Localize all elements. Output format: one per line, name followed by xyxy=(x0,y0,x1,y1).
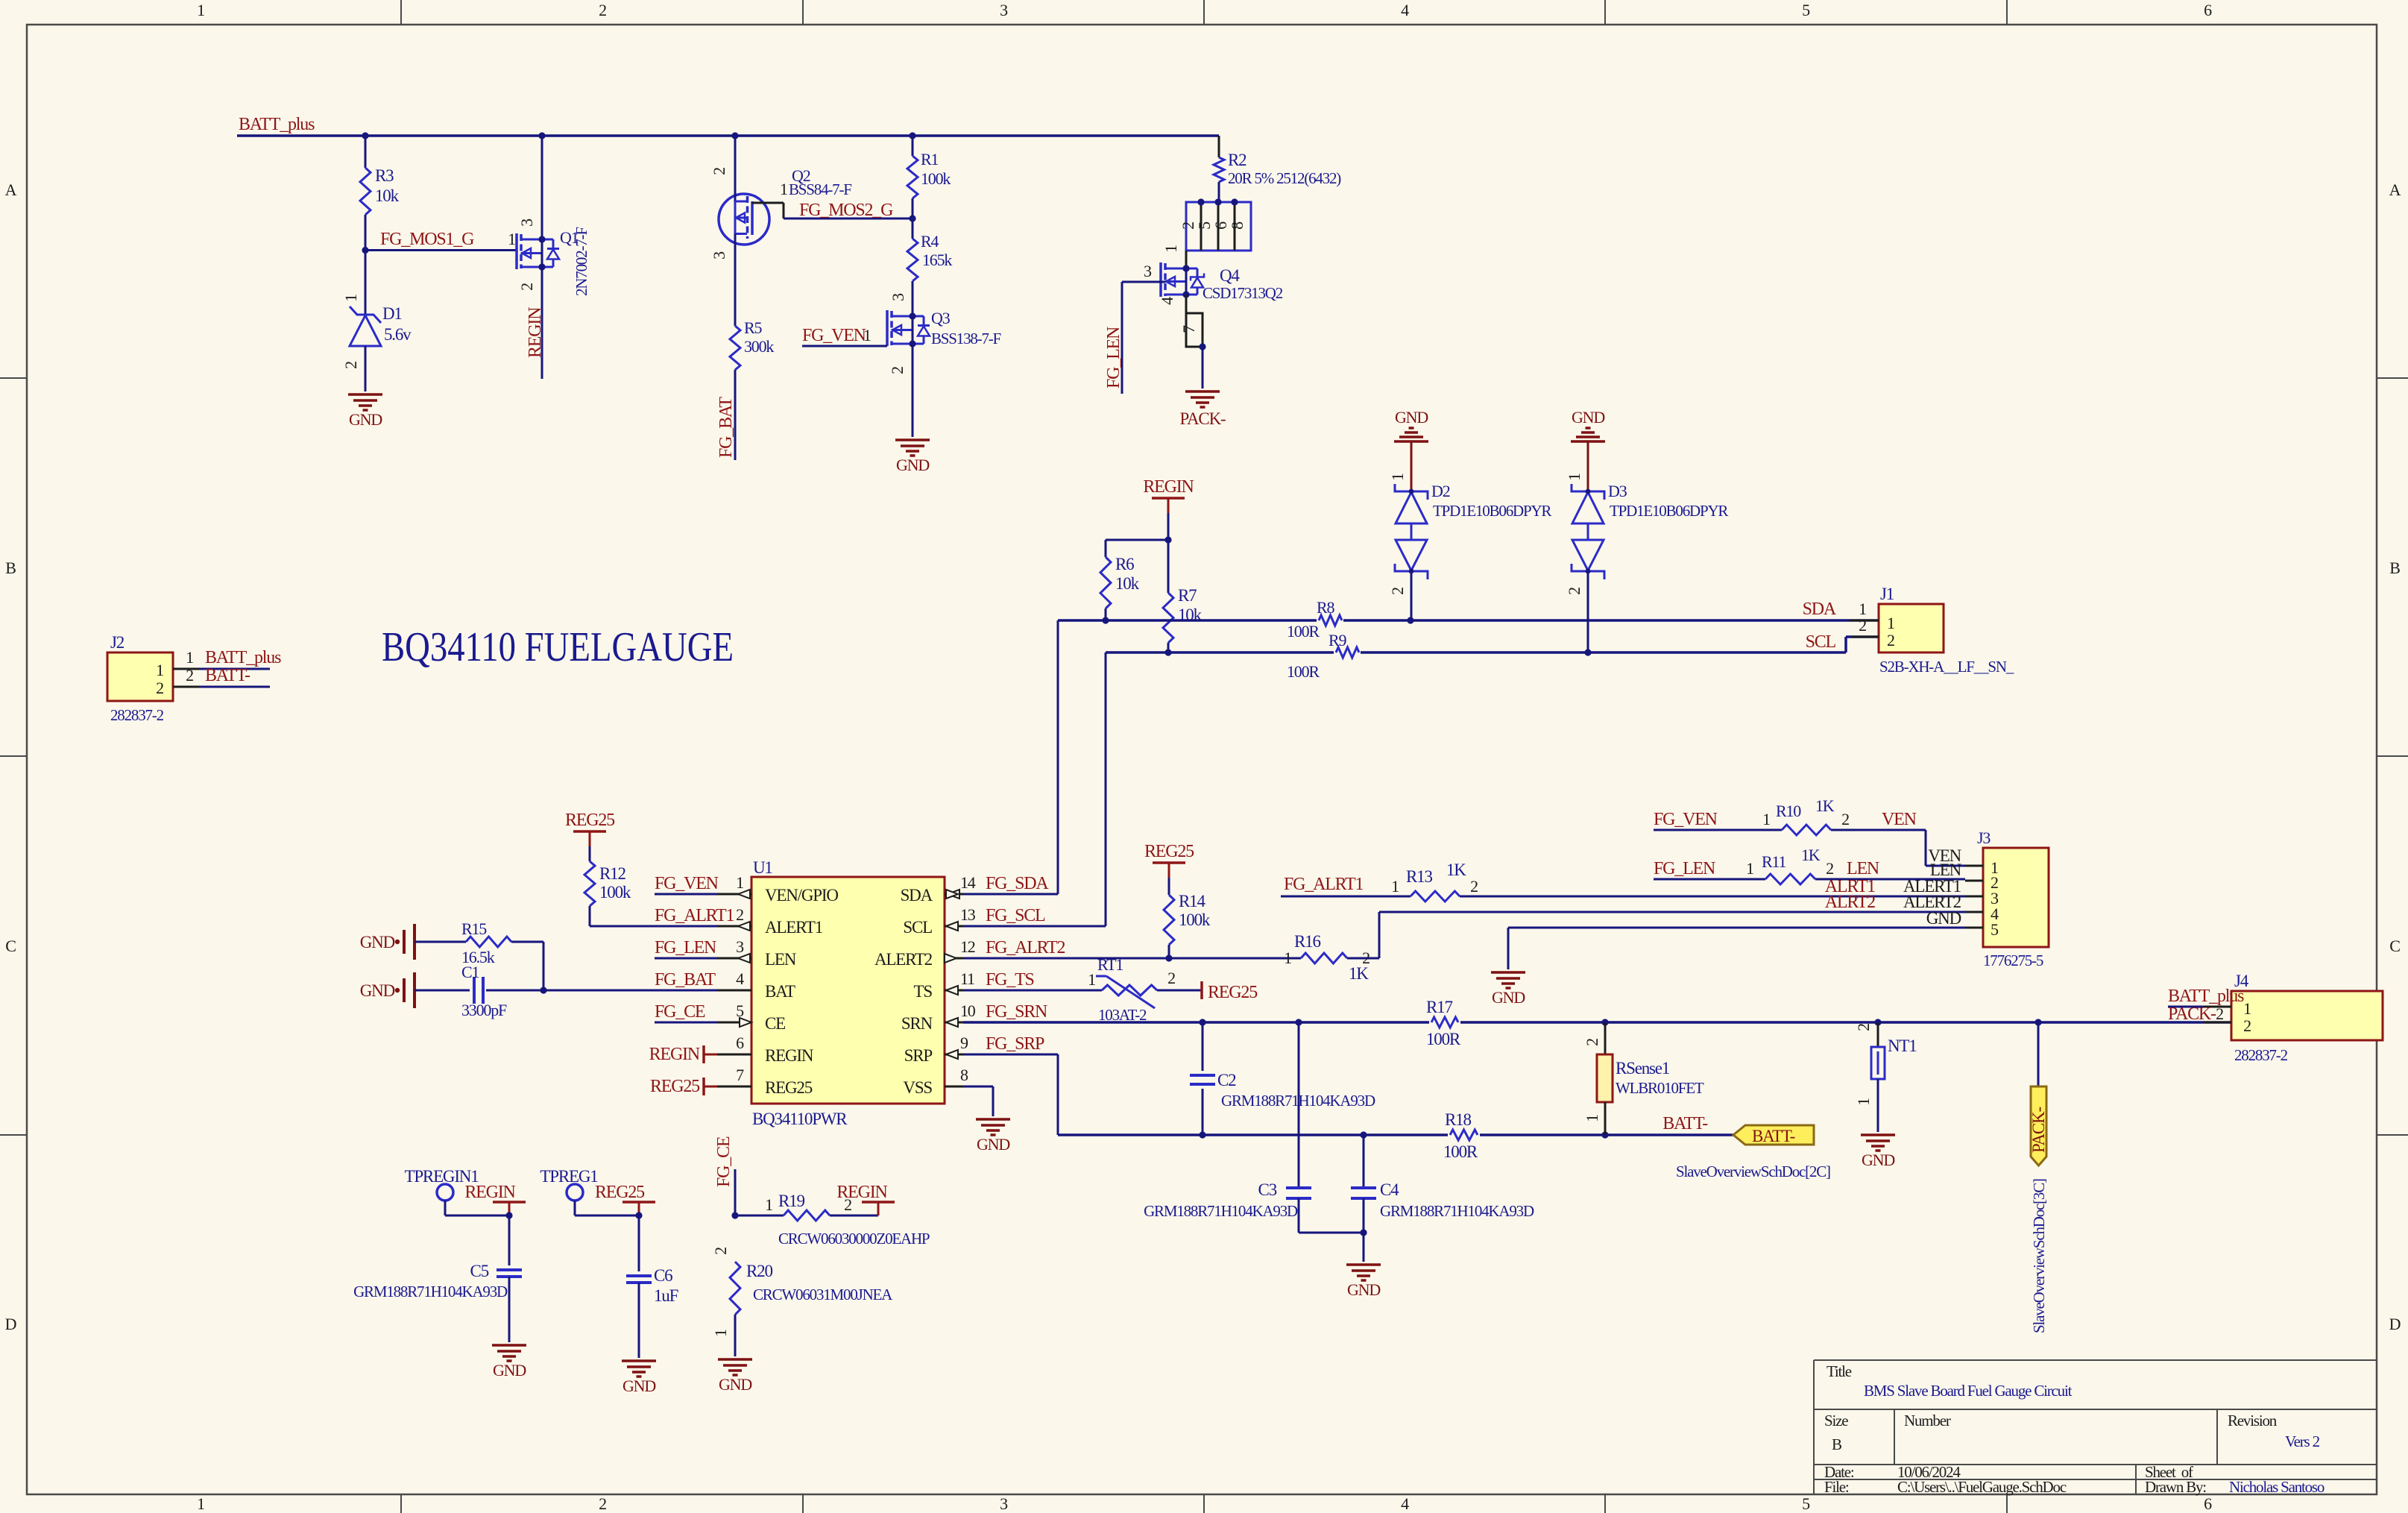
svg-text:1: 1 xyxy=(197,1494,204,1513)
svg-text:FG_CE: FG_CE xyxy=(655,1002,705,1022)
capacitor C3 GRM188R71H104KA93D xyxy=(1144,1022,1364,1233)
svg-text:10: 10 xyxy=(960,1001,976,1020)
svg-text:6: 6 xyxy=(2204,1494,2212,1513)
svg-text:7: 7 xyxy=(736,1066,744,1084)
svg-text:2N7002-7-F: 2N7002-7-F xyxy=(573,227,590,296)
svg-text:ALERT1: ALERT1 xyxy=(765,918,823,937)
svg-text:VSS: VSS xyxy=(903,1078,932,1097)
svg-text:3: 3 xyxy=(1144,262,1152,280)
wire net FG_CE to U1 pin5 xyxy=(655,1002,717,1022)
svg-text:LEN: LEN xyxy=(765,950,797,969)
svg-text:100R: 100R xyxy=(1287,622,1320,641)
svg-text:5: 5 xyxy=(1802,1,1810,19)
wire U1 pin8 VSS to ground xyxy=(963,1086,993,1116)
svg-text:ALERT2: ALERT2 xyxy=(874,950,933,969)
svg-text:1: 1 xyxy=(1388,474,1407,481)
svg-text:REG25: REG25 xyxy=(595,1183,645,1202)
transistor Q3 BSS138-7-F xyxy=(887,309,1001,374)
svg-text:Nicholas Santoso: Nicholas Santoso xyxy=(2229,1478,2325,1496)
svg-text:6: 6 xyxy=(736,1034,744,1052)
svg-text:1: 1 xyxy=(1391,877,1399,896)
svg-text:R8: R8 xyxy=(1317,598,1334,617)
ground symbol at U1 VSS xyxy=(976,1119,1010,1154)
svg-text:GND: GND xyxy=(1395,408,1428,427)
svg-text:R1: R1 xyxy=(921,150,938,169)
svg-text:GND: GND xyxy=(1862,1151,1894,1169)
net tie NT1 xyxy=(1854,1022,1917,1132)
svg-text:2: 2 xyxy=(1854,1024,1873,1031)
svg-text:R4: R4 xyxy=(921,232,939,251)
svg-text:300k: 300k xyxy=(744,337,774,356)
svg-text:2: 2 xyxy=(710,168,728,175)
resistor R19 CRCW06030000Z0EAHP xyxy=(735,1192,930,1248)
svg-text:Q3: Q3 xyxy=(931,309,951,327)
ground symbol below C5 xyxy=(492,1345,526,1380)
resistor R3 xyxy=(360,136,400,251)
svg-text:FG_VEN: FG_VEN xyxy=(1654,810,1718,829)
svg-text:REG25: REG25 xyxy=(765,1078,813,1097)
wire net FG_VEN to U1 pin1 xyxy=(655,874,719,894)
svg-text:R20: R20 xyxy=(746,1262,772,1280)
svg-text:2: 2 xyxy=(1565,588,1583,595)
svg-text:CRCW06030000Z0EAHP: CRCW06030000Z0EAHP xyxy=(778,1230,930,1248)
svg-text:282837-2: 282837-2 xyxy=(110,706,164,724)
svg-text:J2: J2 xyxy=(110,633,125,652)
wire net FG_LEN to U1 pin3 xyxy=(655,938,717,958)
svg-text:1776275-5: 1776275-5 xyxy=(1983,951,2043,969)
svg-text:GND: GND xyxy=(1926,909,1961,928)
wire FG_SDA underline xyxy=(963,893,1058,896)
wire net FG_TS to RT1 xyxy=(963,990,1102,992)
svg-text:100k: 100k xyxy=(921,169,951,188)
svg-text:2: 2 xyxy=(156,679,163,697)
svg-text:1: 1 xyxy=(1854,1098,1873,1106)
svg-text:VEN: VEN xyxy=(1882,810,1917,829)
svg-text:FG_LEN: FG_LEN xyxy=(655,938,716,957)
ground symbol below Q3 xyxy=(895,440,930,474)
svg-text:Vers 2: Vers 2 xyxy=(2285,1432,2320,1450)
svg-text:12: 12 xyxy=(960,937,975,956)
svg-text:1: 1 xyxy=(765,1195,772,1214)
svg-text:3: 3 xyxy=(736,937,744,956)
svg-text:1K: 1K xyxy=(1446,861,1466,879)
svg-text:1: 1 xyxy=(780,180,787,198)
svg-text:3: 3 xyxy=(517,218,536,227)
svg-text:VEN/GPIO: VEN/GPIO xyxy=(765,886,838,905)
svg-text:2: 2 xyxy=(599,1494,606,1513)
svg-text:TPREG1: TPREG1 xyxy=(540,1167,598,1186)
svg-text:2: 2 xyxy=(888,367,907,374)
svg-text:FG_VEN: FG_VEN xyxy=(655,874,719,893)
svg-text:BATT-: BATT- xyxy=(1752,1127,1795,1145)
svg-text:R19: R19 xyxy=(778,1192,804,1210)
resistor R17 100R xyxy=(1426,998,1461,1048)
svg-text:C3: C3 xyxy=(1258,1180,1277,1199)
svg-text:GND: GND xyxy=(1572,408,1604,427)
svg-text:1K: 1K xyxy=(1815,796,1835,815)
wire net FG_ALRT1 to J3 and resistor R13 1K xyxy=(1281,861,1965,902)
ground symbol below C6 xyxy=(622,1361,656,1395)
svg-text:6: 6 xyxy=(2204,1,2212,19)
svg-text:CSD17313Q2: CSD17313Q2 xyxy=(1203,284,1283,302)
power port REGIN above C5 xyxy=(464,1183,526,1219)
svg-text:D3: D3 xyxy=(1608,482,1627,500)
svg-text:2: 2 xyxy=(2216,1004,2223,1023)
svg-text:NT1: NT1 xyxy=(1888,1037,1917,1055)
svg-text:2: 2 xyxy=(599,1,606,19)
resistor R10 1K and net VEN xyxy=(1654,796,1965,866)
svg-text:TPD1E10B06DPYR: TPD1E10B06DPYR xyxy=(1433,502,1551,520)
svg-text:1: 1 xyxy=(186,648,193,667)
transistor Q4 CSD17313Q2 xyxy=(1144,251,1283,305)
svg-text:5: 5 xyxy=(1802,1494,1810,1513)
svg-text:1: 1 xyxy=(197,1,204,19)
svg-text:GND: GND xyxy=(719,1375,751,1394)
thermistor RT1 103AT-2 xyxy=(1088,955,1175,1024)
transistor Q1 2N7002-7-F xyxy=(517,136,590,296)
svg-text:1: 1 xyxy=(1746,859,1753,878)
connector J4 282837-2 xyxy=(2168,972,2383,1064)
svg-text:10k: 10k xyxy=(375,186,400,205)
power port REG25 above R14 xyxy=(1144,842,1194,878)
op-amp U1 BQ34110PWR ic body xyxy=(717,858,976,1128)
svg-text:Title: Title xyxy=(1827,1362,1852,1380)
resistor R9 xyxy=(1287,631,1361,681)
svg-text:C: C xyxy=(2389,937,2400,955)
svg-text:GRM188R71H104KA93D: GRM188R71H104KA93D xyxy=(353,1283,508,1300)
test point TPREG1 xyxy=(540,1167,639,1215)
svg-text:ALRT2: ALRT2 xyxy=(1825,893,1875,912)
power port REGIN center xyxy=(1143,477,1194,544)
svg-text:2: 2 xyxy=(1826,859,1833,878)
svg-text:BATT_plus: BATT_plus xyxy=(205,648,281,667)
svg-text:2: 2 xyxy=(711,1248,730,1255)
svg-text:R13: R13 xyxy=(1406,867,1432,886)
svg-text:Size: Size xyxy=(1824,1412,1848,1429)
svg-text:FG_ALRT1: FG_ALRT1 xyxy=(1284,875,1363,894)
svg-text:TPD1E10B06DPYR: TPD1E10B06DPYR xyxy=(1610,502,1728,520)
svg-text:FG_TS: FG_TS xyxy=(986,970,1034,990)
svg-text:SCL: SCL xyxy=(903,918,932,937)
wire net FG_MOS2_G xyxy=(784,201,916,222)
svg-text:3: 3 xyxy=(1000,1,1008,19)
ground port and resistor R15 xyxy=(360,919,543,990)
svg-text:BSS84-7-F: BSS84-7-F xyxy=(789,180,851,198)
svg-text:SRN: SRN xyxy=(901,1014,933,1033)
ground symbol below C3 C4 xyxy=(1346,1265,1381,1299)
svg-text:B: B xyxy=(5,559,16,577)
svg-text:BQ34110PWR: BQ34110PWR xyxy=(752,1110,848,1128)
svg-text:1: 1 xyxy=(1284,949,1291,967)
svg-text:1: 1 xyxy=(508,230,515,248)
svg-text:File:: File: xyxy=(1824,1478,1849,1496)
svg-text:FG_SDA: FG_SDA xyxy=(986,874,1049,893)
resistor R14 xyxy=(1164,878,1211,958)
svg-text:BATT-: BATT- xyxy=(205,666,250,685)
wire net FG_MOS1_G xyxy=(362,230,517,254)
svg-text:R10: R10 xyxy=(1776,802,1801,820)
connector J1 S2B-XH-A__LF__SN_ xyxy=(1803,585,2014,676)
svg-text:R12: R12 xyxy=(599,864,625,883)
svg-text:REGIN: REGIN xyxy=(649,1045,700,1064)
svg-text:REGIN: REGIN xyxy=(836,1183,887,1202)
svg-text:282837-2: 282837-2 xyxy=(2234,1046,2288,1064)
wire net FG_VEN at Q3 gate xyxy=(802,326,887,346)
svg-text:REGIN: REGIN xyxy=(464,1183,515,1202)
wire Q3 source to ground xyxy=(912,344,914,437)
svg-text:13: 13 xyxy=(960,905,976,924)
svg-text:R16: R16 xyxy=(1294,932,1320,951)
svg-text:5.6v: 5.6v xyxy=(384,325,412,344)
svg-text:100R: 100R xyxy=(1426,1030,1461,1048)
svg-text:C6: C6 xyxy=(654,1266,672,1285)
title block xyxy=(1814,1360,2377,1496)
svg-text:165k: 165k xyxy=(922,251,952,269)
svg-text:SDA: SDA xyxy=(901,886,933,905)
svg-text:U1: U1 xyxy=(753,858,772,877)
wire Q4 source to PACK- ground xyxy=(1202,347,1204,389)
svg-text:BMS Slave Board Fuel Gauge Cir: BMS Slave Board Fuel Gauge Circuit xyxy=(1864,1382,2073,1400)
svg-text:2: 2 xyxy=(341,362,360,369)
svg-text:FG_VEN: FG_VEN xyxy=(802,326,866,345)
svg-text:3: 3 xyxy=(710,251,728,259)
svg-text:7: 7 xyxy=(1179,325,1198,333)
svg-text:LEN: LEN xyxy=(1847,859,1879,878)
svg-text:GND: GND xyxy=(623,1377,655,1395)
svg-text:C:\Users\..\FuelGauge.SchDoc: C:\Users\..\FuelGauge.SchDoc xyxy=(1897,1478,2067,1496)
svg-text:REG25: REG25 xyxy=(1144,842,1194,861)
svg-text:FG_CE: FG_CE xyxy=(714,1136,734,1187)
wire net FG_BAT stub xyxy=(716,370,736,460)
svg-text:Revision: Revision xyxy=(2228,1412,2278,1429)
svg-text:B: B xyxy=(2389,559,2400,577)
diode D1 zener 5.6v xyxy=(341,251,412,392)
svg-text:REGIN: REGIN xyxy=(526,307,545,358)
svg-text:FG_SRP: FG_SRP xyxy=(986,1034,1044,1054)
svg-text:REG25: REG25 xyxy=(565,811,615,830)
svg-text:C: C xyxy=(5,937,16,955)
svg-text:1: 1 xyxy=(736,873,743,892)
svg-text:3: 3 xyxy=(1000,1494,1008,1513)
wire net FG_ALRT2 to R14 and R16 xyxy=(963,954,1301,961)
svg-text:1uF: 1uF xyxy=(654,1286,678,1305)
resistor R4 xyxy=(889,218,952,316)
resistor R6 xyxy=(1100,555,1140,620)
ground symbol PACK- xyxy=(1180,391,1226,428)
power tap REGIN at U1 pin6 xyxy=(649,1045,717,1064)
resistor R12 xyxy=(584,846,717,926)
svg-text:2: 2 xyxy=(1470,877,1478,896)
diode D3 TPD1E10B06DPYR tvs xyxy=(1565,474,1728,652)
svg-text:R17: R17 xyxy=(1426,998,1452,1016)
svg-text:D2: D2 xyxy=(1431,482,1450,500)
svg-text:1: 1 xyxy=(711,1330,730,1337)
svg-text:GND: GND xyxy=(1492,988,1525,1007)
svg-text:1: 1 xyxy=(341,295,360,302)
svg-text:2: 2 xyxy=(736,905,743,924)
svg-text:GND: GND xyxy=(896,456,929,474)
svg-text:BATT_plus: BATT_plus xyxy=(2168,987,2244,1006)
svg-text:FG_MOS2_G: FG_MOS2_G xyxy=(799,201,893,220)
svg-text:RSense1: RSense1 xyxy=(1616,1059,1670,1078)
svg-text:REGIN: REGIN xyxy=(765,1046,814,1065)
svg-text:GND: GND xyxy=(349,410,382,429)
wire net FG_SRN rail xyxy=(963,1019,2231,1025)
svg-text:R9: R9 xyxy=(1329,631,1346,649)
svg-text:TS: TS xyxy=(914,982,933,1001)
resistor RSense1 WLBR010FET shunt xyxy=(1583,1022,1704,1135)
junction dots on BATT_plus bus xyxy=(362,132,915,139)
svg-text:1: 1 xyxy=(2243,999,2251,1018)
wire net FG_CE stub xyxy=(714,1136,739,1218)
power port REG25 above C6 xyxy=(595,1183,655,1219)
resistor R8 xyxy=(1287,598,1343,641)
ground symbol above D2 xyxy=(1394,408,1428,491)
svg-text:4: 4 xyxy=(736,969,744,988)
svg-text:2: 2 xyxy=(2243,1016,2251,1035)
svg-text:R5: R5 xyxy=(744,318,762,337)
svg-text:C4: C4 xyxy=(1380,1180,1399,1199)
svg-text:FG_SRN: FG_SRN xyxy=(986,1002,1047,1022)
wire net SCL horizontal xyxy=(1106,637,1879,926)
svg-text:J3: J3 xyxy=(1977,828,1991,847)
Q4 source pin 7 box xyxy=(1179,295,1206,350)
svg-text:BATT_plus: BATT_plus xyxy=(239,115,315,134)
Q4 drain pin box pins 2 5 6 8 xyxy=(1162,198,1251,253)
svg-text:RT1: RT1 xyxy=(1097,955,1123,974)
svg-text:C1: C1 xyxy=(461,963,479,981)
svg-text:GND: GND xyxy=(1347,1280,1380,1299)
svg-text:2: 2 xyxy=(1362,949,1370,967)
svg-text:C2: C2 xyxy=(1217,1071,1236,1089)
svg-text:SlaveOverviewSchDoc[2C]: SlaveOverviewSchDoc[2C] xyxy=(1676,1163,1830,1180)
svg-text:PACK-: PACK- xyxy=(2168,1004,2216,1024)
capacitor C4 GRM188R71H104KA93D xyxy=(1351,1135,1534,1262)
svg-text:103AT-2: 103AT-2 xyxy=(1098,1006,1147,1024)
svg-text:B: B xyxy=(1832,1435,1841,1453)
wire net FG_LEN at Q4 gate xyxy=(1104,282,1165,394)
power port REGIN at R19 pin2 xyxy=(836,1183,895,1215)
svg-text:SRP: SRP xyxy=(904,1046,933,1065)
ground symbol above D3 xyxy=(1571,408,1605,491)
svg-text:FG_SCL: FG_SCL xyxy=(986,906,1045,925)
port PACK- vertical flag xyxy=(2029,1022,2048,1166)
svg-text:5: 5 xyxy=(1991,920,1999,939)
resistor R1 xyxy=(907,136,951,218)
svg-text:FG_ALRT2: FG_ALRT2 xyxy=(986,938,1065,957)
svg-text:BATT-: BATT- xyxy=(1662,1114,1708,1133)
svg-text:8: 8 xyxy=(1228,221,1246,230)
svg-text:R3: R3 xyxy=(375,166,394,185)
svg-text:14: 14 xyxy=(960,873,976,892)
power tap REG25 at U1 pin7 xyxy=(650,1077,717,1096)
svg-text:GND: GND xyxy=(977,1135,1009,1154)
resistor R18 100R xyxy=(1443,1110,1480,1161)
resistor R20 CRCW06031M00JNEA xyxy=(711,1248,893,1356)
power tap REG25 at RT1 pin2 xyxy=(1157,981,1258,1002)
svg-text:4: 4 xyxy=(1401,1,1409,19)
svg-text:1: 1 xyxy=(1887,614,1894,632)
svg-text:Drawn By:: Drawn By: xyxy=(2145,1478,2206,1496)
svg-text:D: D xyxy=(2389,1315,2401,1333)
svg-text:C5: C5 xyxy=(470,1262,489,1280)
svg-text:9: 9 xyxy=(960,1034,968,1052)
wire net BATT_plus top bus xyxy=(237,115,1219,136)
svg-text:WLBR010FET: WLBR010FET xyxy=(1616,1079,1704,1097)
svg-text:R2: R2 xyxy=(1228,151,1246,169)
svg-text:1: 1 xyxy=(1088,970,1095,989)
svg-text:J1: J1 xyxy=(1880,585,1894,603)
svg-text:2: 2 xyxy=(1841,810,1849,828)
svg-text:R18: R18 xyxy=(1445,1110,1471,1129)
ground symbol below D1 xyxy=(348,394,382,429)
ground symbol below J3 gnd wire xyxy=(1491,972,1525,1007)
svg-text:SlaveOverviewSchDoc[3C]: SlaveOverviewSchDoc[3C] xyxy=(2030,1179,2048,1333)
svg-text:FG_LEN: FG_LEN xyxy=(1654,859,1715,878)
svg-text:100R: 100R xyxy=(1443,1142,1478,1161)
svg-text:1: 1 xyxy=(156,661,163,679)
svg-text:REGIN: REGIN xyxy=(1143,477,1194,497)
diode D2 TPD1E10B06DPYR tvs xyxy=(1388,474,1551,620)
svg-text:4: 4 xyxy=(1158,297,1176,305)
svg-text:A: A xyxy=(2389,180,2401,199)
svg-text:1: 1 xyxy=(1565,474,1583,481)
svg-text:CE: CE xyxy=(765,1014,785,1033)
transistor Q2 BSS84-7-F pmos xyxy=(710,136,851,259)
svg-text:4: 4 xyxy=(1401,1494,1409,1513)
svg-text:SDA: SDA xyxy=(1803,600,1837,619)
svg-text:2: 2 xyxy=(1388,588,1407,595)
svg-text:3: 3 xyxy=(889,293,907,301)
svg-text:8: 8 xyxy=(960,1066,968,1084)
wire REGIN to R6 xyxy=(1106,540,1168,557)
svg-text:100k: 100k xyxy=(1179,910,1211,929)
svg-text:R14: R14 xyxy=(1179,892,1205,910)
wire net FG_SRP to BATT- rail xyxy=(963,1054,1733,1139)
svg-text:BQ34110 FUELGAUGE: BQ34110 FUELGAUGE xyxy=(382,624,734,670)
ground symbol below R20 xyxy=(718,1359,752,1394)
svg-text:2: 2 xyxy=(1167,969,1175,987)
wire net SDA horizontal xyxy=(1058,617,1879,894)
svg-text:BAT: BAT xyxy=(765,982,795,1001)
svg-text:100k: 100k xyxy=(599,883,631,902)
wire net GND to J3 pin5 xyxy=(1508,928,1965,969)
svg-text:20R 5% 2512(6432): 20R 5% 2512(6432) xyxy=(1228,169,1341,187)
power port REG25 above R12 xyxy=(565,811,615,846)
svg-text:GRM188R71H104KA93D: GRM188R71H104KA93D xyxy=(1144,1202,1298,1220)
capacitor C2 GRM188R71H104KA93D xyxy=(1190,1022,1375,1135)
svg-text:2: 2 xyxy=(1583,1039,1601,1046)
svg-text:10k: 10k xyxy=(1115,574,1140,593)
svg-text:R15: R15 xyxy=(461,919,487,938)
svg-text:D1: D1 xyxy=(382,304,402,323)
svg-text:2: 2 xyxy=(186,666,193,685)
port BATT- flag xyxy=(1662,1114,1814,1145)
svg-text:2: 2 xyxy=(1887,631,1894,649)
svg-text:1K: 1K xyxy=(1801,846,1821,864)
svg-text:R11: R11 xyxy=(1762,852,1785,871)
ground symbol below NT1 xyxy=(1861,1135,1895,1169)
svg-text:S2B-XH-A__LF__SN_: S2B-XH-A__LF__SN_ xyxy=(1879,658,2014,676)
svg-text:100R: 100R xyxy=(1287,662,1320,681)
connector J2 282837-2 xyxy=(107,633,281,724)
resistor R2 20R xyxy=(1214,136,1341,202)
svg-text:2: 2 xyxy=(1859,616,1866,635)
svg-text:D: D xyxy=(5,1315,16,1333)
svg-text:R6: R6 xyxy=(1115,555,1134,573)
svg-text:SCL: SCL xyxy=(1806,632,1836,652)
svg-text:REG25: REG25 xyxy=(1208,983,1258,1002)
